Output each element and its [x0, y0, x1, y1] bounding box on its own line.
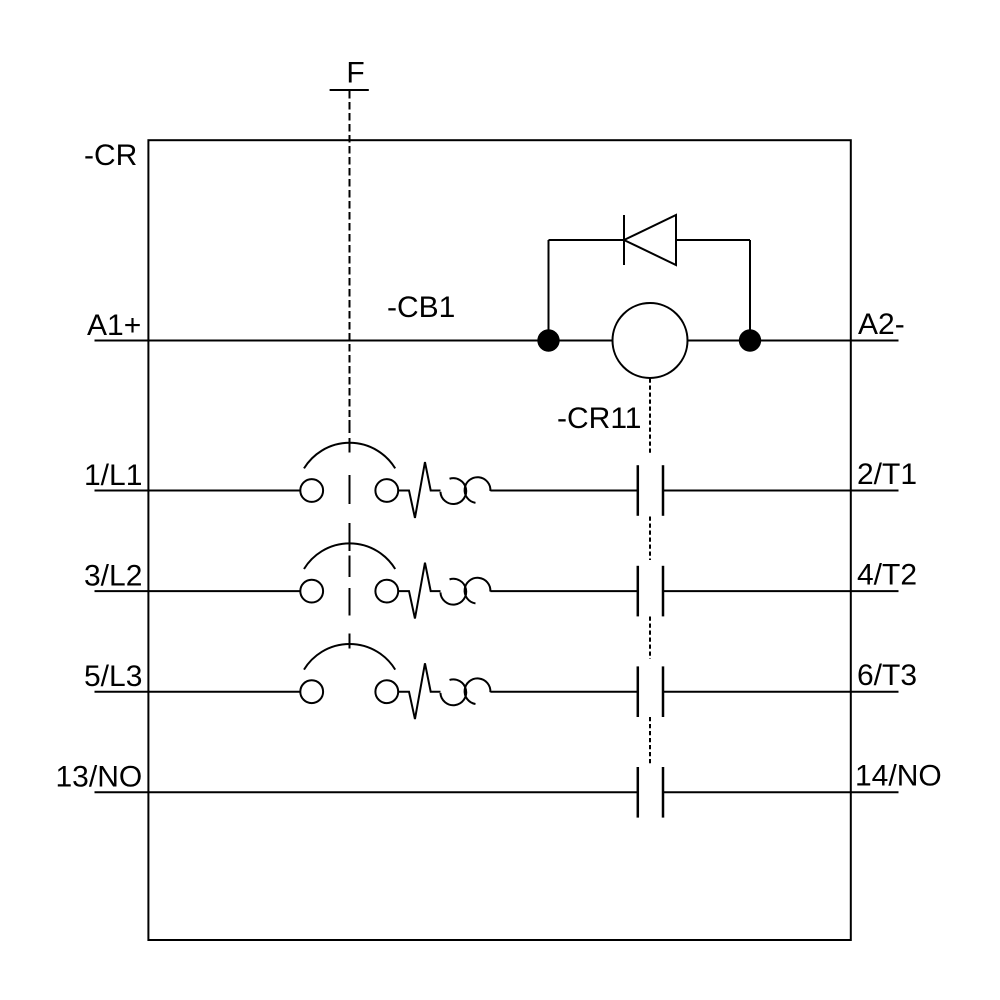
svg-text:5/L3: 5/L3 — [84, 660, 142, 693]
svg-text:4/T2: 4/T2 — [857, 559, 917, 592]
svg-text:-CR11: -CR11 — [557, 402, 641, 435]
svg-text:1/L1: 1/L1 — [84, 459, 142, 492]
svg-text:2/T1: 2/T1 — [857, 458, 917, 491]
svg-text:13/NO: 13/NO — [56, 761, 143, 794]
svg-text:F: F — [346, 56, 364, 89]
svg-text:6/T3: 6/T3 — [857, 659, 917, 692]
svg-text:A1+: A1+ — [87, 309, 141, 342]
svg-text:A2-: A2- — [858, 308, 905, 341]
svg-text:-CB1: -CB1 — [387, 291, 455, 324]
svg-text:14/NO: 14/NO — [855, 760, 942, 793]
svg-text:3/L2: 3/L2 — [84, 560, 142, 593]
svg-text:-CR: -CR — [84, 139, 137, 172]
